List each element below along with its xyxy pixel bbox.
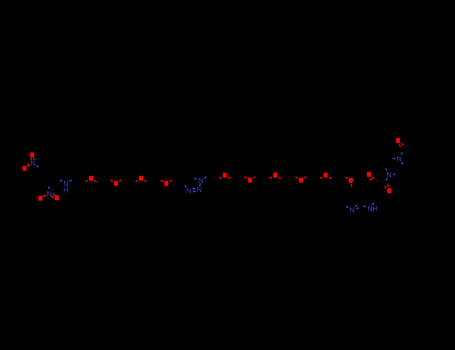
svg-text:N: N: [397, 156, 402, 163]
svg-text:N: N: [186, 188, 191, 195]
svg-text:N: N: [198, 178, 203, 185]
svg-text:N: N: [386, 172, 391, 179]
svg-text:N: N: [197, 187, 202, 194]
svg-text:H: H: [63, 188, 68, 195]
svg-text:N: N: [350, 207, 355, 214]
svg-text:H: H: [372, 206, 377, 213]
